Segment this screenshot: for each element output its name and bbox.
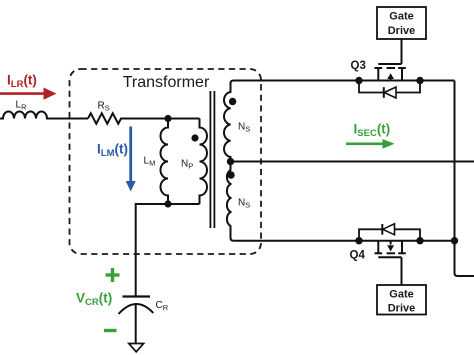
svg-text:Transformer: Transformer (123, 74, 210, 91)
svg-text:Drive: Drive (388, 25, 416, 37)
svg-text:Q4: Q4 (350, 250, 366, 262)
svg-text:Gate: Gate (389, 11, 413, 23)
svg-text:Q3: Q3 (351, 60, 366, 72)
svg-text:Gate: Gate (389, 289, 413, 301)
svg-text:Drive: Drive (388, 303, 416, 315)
